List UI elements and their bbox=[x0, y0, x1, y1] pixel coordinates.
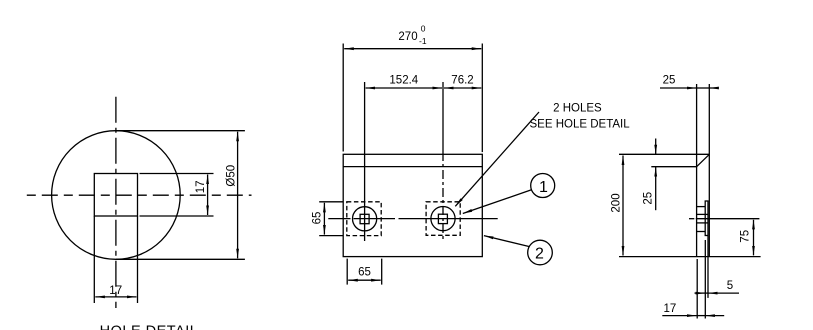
svg-text:0: 0 bbox=[421, 23, 426, 33]
svg-text:25: 25 bbox=[643, 192, 655, 205]
svg-text:-1: -1 bbox=[419, 36, 427, 46]
svg-text:65: 65 bbox=[311, 212, 323, 225]
svg-text:75: 75 bbox=[739, 230, 751, 243]
svg-text:Ø50: Ø50 bbox=[226, 165, 238, 187]
svg-text:17: 17 bbox=[195, 180, 207, 193]
svg-text:152.4: 152.4 bbox=[389, 75, 418, 87]
svg-text:5: 5 bbox=[727, 280, 733, 292]
svg-text:76.2: 76.2 bbox=[451, 75, 473, 87]
svg-text:1: 1 bbox=[539, 179, 548, 196]
svg-text:2: 2 bbox=[535, 246, 544, 263]
svg-text:2 HOLES: 2 HOLES bbox=[553, 102, 602, 114]
svg-text:SEE HOLE DETAIL: SEE HOLE DETAIL bbox=[530, 119, 631, 131]
svg-text:200: 200 bbox=[610, 193, 622, 212]
svg-text:17: 17 bbox=[109, 285, 122, 297]
svg-text:65: 65 bbox=[358, 267, 371, 279]
svg-text:17: 17 bbox=[664, 303, 677, 315]
svg-text:HOLE DETAIL: HOLE DETAIL bbox=[100, 323, 199, 330]
svg-text:25: 25 bbox=[663, 75, 676, 87]
svg-text:270: 270 bbox=[398, 31, 417, 43]
